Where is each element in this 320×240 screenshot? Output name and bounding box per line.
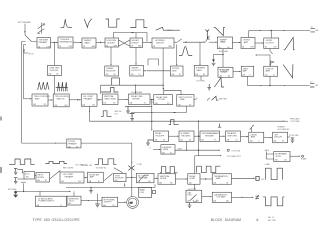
box disconnect diodes U4	[105, 38, 119, 47]
svg-text:23A: 23A	[155, 102, 158, 105]
switch F3 diag arm	[104, 174, 112, 181]
symbol crt grid connector	[292, 137, 294, 139]
svg-text:8A: 8A	[242, 46, 244, 49]
svg-text:HV: HV	[113, 205, 115, 207]
svg-text:AMP: AMP	[251, 136, 256, 139]
svg-text:CIRCUIT: CIRCUIT	[274, 137, 283, 139]
svg-text:BLOCK: BLOCK	[211, 218, 223, 222]
svg-text:LOCKOUT: LOCKOUT	[131, 70, 141, 72]
wire U9 bottom switch to vert output	[270, 49, 273, 66]
wire U8 up to plate line	[248, 31, 250, 38]
box ch2 attenuator F1	[36, 172, 50, 182]
svg-text:CH1: CH1	[92, 104, 95, 106]
waveform sweep ramp w5	[156, 27, 180, 30]
box crt circuit E6	[273, 132, 288, 143]
svg-text:TRIG: TRIG	[144, 177, 148, 179]
box horizontal amplifier U8	[241, 38, 255, 49]
waveform retrace v w7	[214, 27, 225, 35]
svg-text:DP: DP	[163, 139, 165, 141]
node junction pair line	[151, 112, 152, 113]
svg-text:V: V	[250, 74, 251, 76]
wire terminal pair line a	[131, 105, 152, 107]
wire select down to b gate	[199, 42, 201, 65]
box b trigger U13	[171, 66, 184, 76]
wire drop into b trigger	[176, 45, 178, 66]
svg-text:7A: 7A	[219, 46, 221, 49]
svg-text:PREAMP: PREAMP	[65, 175, 74, 178]
svg-text:4A: 4A	[106, 44, 108, 47]
wire stub to V1 top	[256, 54, 270, 56]
box b miller runup U15	[218, 67, 233, 77]
node scan mark left upper	[0, 117, 2, 121]
svg-text:Z: Z	[259, 141, 260, 143]
svg-text:CRT: CRT	[130, 202, 133, 204]
svg-text:DIAGRAM: DIAGRAM	[225, 218, 241, 222]
wire long vertical to crt	[131, 143, 133, 196]
wire feedback line y83	[101, 85, 164, 94]
svg-text:OSCILLOSCOPE: OSCILLOSCOPE	[52, 218, 81, 222]
wire vertical drop to jumper	[162, 48, 164, 90]
wire gate stubs into E7	[266, 154, 274, 159]
wire U15 to V1	[233, 71, 241, 73]
wire drop from G row	[154, 184, 156, 187]
wire unblanking top line	[198, 121, 200, 136]
svg-text:LO: LO	[139, 74, 142, 76]
svg-text:AC DC: AC DC	[25, 173, 31, 176]
svg-text:22A: 22A	[130, 102, 133, 105]
svg-text:BT: BT	[179, 74, 181, 76]
waveform vert sig pulse w11c	[101, 111, 112, 117]
wire feedback loop over U4 U5	[114, 33, 148, 42]
node junction jumper	[163, 88, 164, 89]
wire U8 to U9	[255, 42, 263, 44]
svg-text:AC POWER: AC POWER	[8, 188, 17, 191]
svg-text:RUNUP: RUNUP	[131, 42, 139, 44]
wire horizontal deflection line 2	[261, 30, 285, 32]
svg-text:LOW: LOW	[47, 46, 51, 48]
svg-text:26A: 26A	[155, 138, 158, 141]
svg-text:AC: AC	[57, 73, 60, 76]
waveform trigger pulse w1	[61, 19, 73, 28]
symbol E7 out connector	[302, 155, 304, 157]
wire E0 out long run	[81, 142, 132, 144]
svg-text:41A: 41A	[213, 181, 216, 184]
wire D3 trigger pickoff down	[89, 106, 91, 112]
svg-text:X10: X10	[227, 47, 230, 49]
switch trigger source arm S1	[25, 35, 37, 42]
node junction G2 G3	[205, 178, 206, 179]
symbol perpendicular above E3	[218, 124, 221, 128]
svg-text:OSC: OSC	[187, 195, 192, 197]
svg-text:PT: PT	[214, 139, 216, 141]
svg-text:25 KC: 25 KC	[69, 201, 75, 203]
svg-text:BT: BT	[76, 146, 78, 148]
svg-text:JULY 1967: JULY 1967	[268, 220, 276, 222]
svg-text:SWITCH: SWITCH	[56, 98, 64, 100]
wire tie to P3	[89, 200, 102, 202]
svg-text:PREAMP: PREAMP	[39, 41, 48, 44]
svg-text:CH2: CH2	[78, 181, 81, 183]
wire F2 to F3	[84, 177, 87, 179]
wire U5 down to lockout	[135, 48, 137, 65]
wire G2 to G3	[200, 178, 212, 180]
svg-text:PREAMP: PREAMP	[84, 97, 93, 100]
wire feedback stub into U5 top	[135, 33, 137, 39]
wire B1 to B2	[51, 41, 58, 43]
svg-text:TIME: TIME	[168, 46, 172, 48]
svg-text:BS: BS	[189, 139, 191, 141]
box sweep gate U3	[82, 38, 96, 48]
wire G2 down to calibrator	[194, 184, 196, 189]
svg-text:EXT LO: EXT LO	[29, 53, 35, 55]
wire P2 output	[81, 200, 89, 202]
wire feedback branch into D5	[135, 85, 137, 93]
wire U14 down to ground	[200, 76, 202, 81]
svg-text:PICKOFF: PICKOFF	[50, 70, 59, 72]
svg-text:6A: 6A	[153, 45, 155, 48]
wire U12 output jumper	[144, 70, 147, 72]
svg-text:14A: 14A	[195, 73, 198, 76]
svg-text:TO CRT GRID: TO CRT GRID	[290, 121, 301, 123]
svg-text:INTENSITY: INTENSITY	[278, 126, 286, 128]
wire U10 down to cal amp	[54, 76, 56, 95]
wire E2 to E3	[194, 135, 200, 137]
waveform unblank pulse w17	[169, 120, 179, 125]
switch pickoff tick	[207, 98, 210, 101]
svg-text:VERT SIG: VERT SIG	[115, 111, 123, 113]
box horizontal output U9	[264, 38, 279, 49]
wire D3 to D4	[97, 99, 102, 101]
node connector dot on ext trigger wire	[24, 31, 25, 32]
wire K2 output 2	[243, 196, 253, 198]
wire G3 output	[232, 177, 255, 179]
svg-text:30A: 30A	[250, 140, 253, 143]
wire U6 output	[174, 41, 177, 43]
box cal shaper D2	[53, 94, 69, 107]
waveform gate pulse w11a	[101, 88, 119, 93]
wire vertical deflection line 2	[262, 85, 285, 87]
wire E1 to E2	[169, 135, 179, 137]
svg-text:GATE: GATE	[163, 148, 169, 151]
node junction vert plate line	[269, 85, 270, 86]
svg-text:34A: 34A	[37, 179, 40, 182]
waveform g row square w16b	[197, 166, 221, 172]
svg-text:1A: 1A	[38, 45, 40, 48]
svg-text:RUNUP: RUNUP	[220, 72, 228, 74]
node junction plate line	[271, 30, 272, 31]
box vertical mode G1	[158, 174, 176, 185]
wire up arrow on crt line	[131, 161, 133, 163]
svg-text:AMP: AMP	[243, 70, 248, 73]
wire drop arrow at 124	[124, 183, 126, 186]
node junction sweep select	[185, 42, 186, 43]
svg-text:DEF: DEF	[316, 30, 319, 32]
svg-text:AMP: AMP	[180, 98, 185, 101]
svg-text:MAG: MAG	[221, 41, 226, 44]
box delay driver G2	[188, 174, 200, 185]
wire B2 to B3	[73, 42, 82, 44]
svg-text:44A: 44A	[103, 204, 106, 207]
box termination amp G3	[212, 174, 231, 185]
symbol G3 out connector	[256, 177, 264, 182]
wire b gate vertical	[265, 151, 267, 159]
svg-text:MODE: MODE	[160, 178, 167, 180]
box line trigger pickoff U10	[48, 66, 62, 76]
wire U9 up to plate line	[270, 31, 272, 39]
wire contact stub LINE	[24, 50, 28, 53]
ground distribution	[89, 187, 93, 193]
box delayed sweep gen E4	[226, 131, 241, 142]
waveform cal spikes left w10a	[37, 82, 49, 89]
svg-text:25A: 25A	[68, 145, 71, 148]
symbol hv tie point	[97, 194, 99, 204]
ground sig out	[126, 111, 130, 113]
svg-text:5A: 5A	[131, 45, 133, 48]
ground calibrator	[188, 203, 192, 208]
waveform positive gate w4	[130, 20, 147, 28]
svg-text:+ GATE: + GATE	[177, 148, 182, 151]
svg-text:453: 453	[44, 218, 50, 222]
wire horizontal deflection line 3	[285, 30, 311, 32]
node junction after B3	[100, 42, 101, 43]
svg-text:SYNC: SYNC	[276, 156, 282, 158]
svg-text:HV: HV	[282, 141, 284, 143]
symbol crossover bowtie	[128, 166, 134, 171]
wire vertical into b sweep E1	[151, 100, 153, 103]
svg-text:B SWP: B SWP	[144, 175, 149, 177]
box sweep magnifier U7	[218, 37, 233, 49]
waveform g row square w16a	[160, 167, 177, 173]
wire terminal pair line b	[131, 112, 187, 114]
waveform ch2 pulse w15c	[95, 159, 117, 165]
box b sweep trigger E2	[179, 131, 194, 142]
svg-text:20A: 20A	[82, 103, 85, 106]
svg-text:31A: 31A	[274, 140, 277, 143]
box delay line driver D5	[129, 94, 151, 105]
svg-text:TO CRT GRID: TO CRT GRID	[289, 135, 300, 137]
wire select to switch2	[183, 41, 205, 43]
wire U7 bottom to arrow	[222, 49, 224, 68]
box input coupling F0	[24, 172, 35, 180]
svg-text:TRIGGER: TRIGGER	[181, 135, 191, 137]
box trig pickoff F4	[114, 173, 126, 182]
waveform delayed trigger bump w12	[179, 47, 192, 56]
svg-text:24A: 24A	[178, 103, 181, 106]
symbol crt beam w6	[205, 29, 209, 39]
wire rail to b ext trig box	[22, 142, 57, 144]
wire jumper loop	[148, 59, 159, 66]
wire D6 jumper to D7	[164, 90, 181, 94]
wire U4 down to holdoff	[110, 47, 112, 65]
svg-text:GEN: GEN	[172, 70, 177, 72]
symbol coupling arrows	[38, 23, 45, 34]
svg-text:TO CRT: TO CRT	[137, 164, 143, 166]
waveform negative gate w3	[106, 19, 120, 27]
ground below U14	[207, 84, 211, 90]
svg-text:21A: 21A	[103, 102, 106, 105]
box vert output amp D7	[177, 95, 194, 107]
svg-text:AMP: AMP	[90, 176, 95, 179]
svg-text:ILLUM: ILLUM	[140, 192, 145, 194]
svg-text:GATE: GATE	[92, 45, 96, 48]
box delay line D6	[154, 95, 173, 105]
wire ch2 input stub	[18, 178, 25, 180]
svg-text:SWITCHING: SWITCHING	[104, 98, 116, 100]
svg-text:AMP: AMP	[35, 97, 40, 100]
svg-text:AMP: AMP	[216, 177, 221, 180]
svg-text:36A: 36A	[89, 180, 92, 183]
symbol crt heater circle	[127, 197, 139, 209]
svg-text:18A: 18A	[33, 103, 36, 106]
wire ch1 input arrow	[18, 169, 23, 173]
svg-text:DL: DL	[144, 103, 146, 105]
wire gnd contact stub	[21, 181, 26, 183]
switch sweep mode arm	[177, 39, 182, 42]
svg-text:B GATE: B GATE	[301, 157, 306, 160]
svg-text:TRIG SIG CH2: TRIG SIG CH2	[81, 165, 92, 167]
svg-text:DRIVER: DRIVER	[132, 98, 140, 100]
svg-text:OUT AMP: OUT AMP	[216, 196, 226, 199]
node scan mark left lower	[0, 167, 2, 173]
svg-text:39A: 39A	[159, 181, 162, 184]
wire junction down to line trig box	[54, 42, 56, 65]
svg-text:SUPPLY: SUPPLY	[104, 202, 112, 204]
svg-text:A: A	[196, 97, 197, 100]
node junction feedback	[135, 85, 136, 86]
wire E7 output	[290, 155, 300, 157]
wire ext trigger drop	[24, 24, 26, 35]
svg-text:29A: 29A	[227, 138, 230, 141]
svg-text:AS: AS	[285, 159, 287, 162]
svg-text:42A: 42A	[37, 204, 40, 207]
svg-text:OUTPUT: OUTPUT	[266, 42, 275, 44]
svg-text:ATTEN: ATTEN	[37, 176, 44, 179]
svg-text:32A: 32A	[162, 151, 165, 154]
waveform differentiated dip w2	[84, 19, 92, 28]
switch horiz display arm	[205, 35, 209, 42]
switch contact INT	[22, 42, 26, 45]
svg-text:FIG. 1-1: FIG. 1-1	[268, 217, 274, 219]
box delay pickoff E1	[154, 131, 169, 142]
svg-text:35A: 35A	[61, 180, 64, 183]
waveform cal spikes right w10b	[56, 82, 68, 91]
wire P3 to crt heater	[118, 201, 126, 203]
svg-text:COMP: COMP	[189, 178, 196, 180]
wire vertical junction drop	[199, 136, 222, 155]
svg-text:V: V	[256, 179, 257, 181]
box cal output amp K2	[212, 192, 231, 202]
wire D1 to D2	[48, 99, 53, 101]
box vertical output V2	[264, 66, 278, 76]
svg-text:LV: LV	[60, 205, 62, 207]
svg-text:12A: 12A	[131, 73, 134, 76]
svg-text:GENERATOR: GENERATOR	[59, 40, 72, 43]
node junction E1b run	[198, 150, 199, 151]
wire arrow down to b sweep	[213, 55, 215, 60]
waveform pickoff ramp w14	[211, 96, 218, 100]
node junction after B1	[54, 42, 55, 43]
svg-text:CPL: CPL	[44, 104, 47, 106]
node feedback arrow	[131, 32, 134, 34]
svg-text:DS: DS	[236, 139, 238, 141]
svg-text:19A: 19A	[54, 104, 57, 107]
wire D4 to D5	[118, 99, 128, 101]
node junction D3 D4	[98, 99, 99, 100]
svg-text:TRIGGER: TRIGGER	[205, 135, 215, 137]
svg-text:2A: 2A	[59, 45, 61, 48]
box ch2 preamp F2	[60, 172, 84, 183]
wire pickoff run right y121	[90, 120, 285, 122]
ground ac plug	[13, 195, 18, 198]
svg-text:NORM MAG: NORM MAG	[219, 50, 229, 53]
waveform input pulses w15a	[9, 159, 35, 164]
node junction crt line crossing	[131, 177, 132, 178]
wire into sweep mag	[209, 41, 217, 43]
wire E3 to E4	[220, 135, 225, 137]
box sweep lockout U12	[130, 66, 144, 77]
waveform vert retrace w9	[283, 64, 293, 78]
box vertical output V1	[241, 66, 254, 76]
symbol aux terminal	[130, 114, 135, 118]
wire F5 to G1	[154, 177, 157, 179]
svg-text:TO Z AXIS AMP: TO Z AXIS AMP	[131, 91, 142, 94]
wire V1 down to vert plate line	[247, 76, 249, 85]
svg-text:TYPE: TYPE	[33, 218, 43, 222]
svg-text:GATE TRIG: GATE TRIG	[219, 98, 228, 101]
svg-text:AT: AT	[45, 179, 47, 182]
svg-text:GATE: GATE	[84, 41, 90, 44]
svg-text:HOLDOFF: HOLDOFF	[106, 70, 116, 72]
box cal multi D1	[32, 94, 50, 106]
svg-text:B: B	[150, 148, 151, 150]
box ch2 amp F3	[88, 172, 104, 183]
wire top distribution line	[66, 186, 155, 188]
box vert switching D4	[102, 94, 118, 105]
svg-text:AMP: AMP	[266, 70, 271, 73]
wire ac line run	[17, 190, 71, 192]
wire E2 bottom drop	[186, 142, 188, 151]
ground hv tie point	[95, 204, 100, 208]
ground left of E1	[146, 140, 153, 145]
wire V2 down to vert plate line	[269, 76, 271, 85]
wire ac into hv supply	[73, 191, 75, 196]
svg-text:BG: BG	[203, 74, 206, 76]
svg-text:PREAMP: PREAMP	[68, 142, 77, 145]
waveform b ramp w13	[214, 78, 224, 87]
symbol ch2 input connector	[14, 178, 18, 184]
svg-text:33A: 33A	[275, 159, 278, 162]
svg-text:DIODES: DIODES	[107, 42, 115, 44]
wire K2 output	[232, 196, 244, 198]
wire E6 to crt grid	[288, 136, 291, 138]
svg-text:46A: 46A	[213, 200, 216, 203]
svg-text:TIME A: TIME A	[167, 29, 172, 32]
box low voltage supply P1	[36, 196, 67, 207]
svg-text:9A: 9A	[265, 46, 267, 49]
svg-text:PICKOFF: PICKOFF	[115, 178, 124, 180]
svg-text:DL2: DL2	[167, 103, 170, 105]
wire horizontal deflection line	[249, 30, 261, 32]
svg-text:VOLTS/DIV AC: VOLTS/DIV AC	[96, 166, 108, 169]
svg-text:+ GATE: + GATE	[264, 163, 269, 166]
svg-text:EXT TRIGGER: EXT TRIGGER	[18, 22, 31, 24]
svg-text:POWER SUPPLY: POWER SUPPLY	[38, 201, 55, 203]
node junction distribution	[90, 187, 91, 188]
svg-text:10A: 10A	[49, 73, 52, 76]
symbol cal out connector	[255, 195, 259, 199]
svg-text:CRT: CRT	[274, 47, 277, 49]
svg-text:BS: BS	[228, 75, 230, 77]
